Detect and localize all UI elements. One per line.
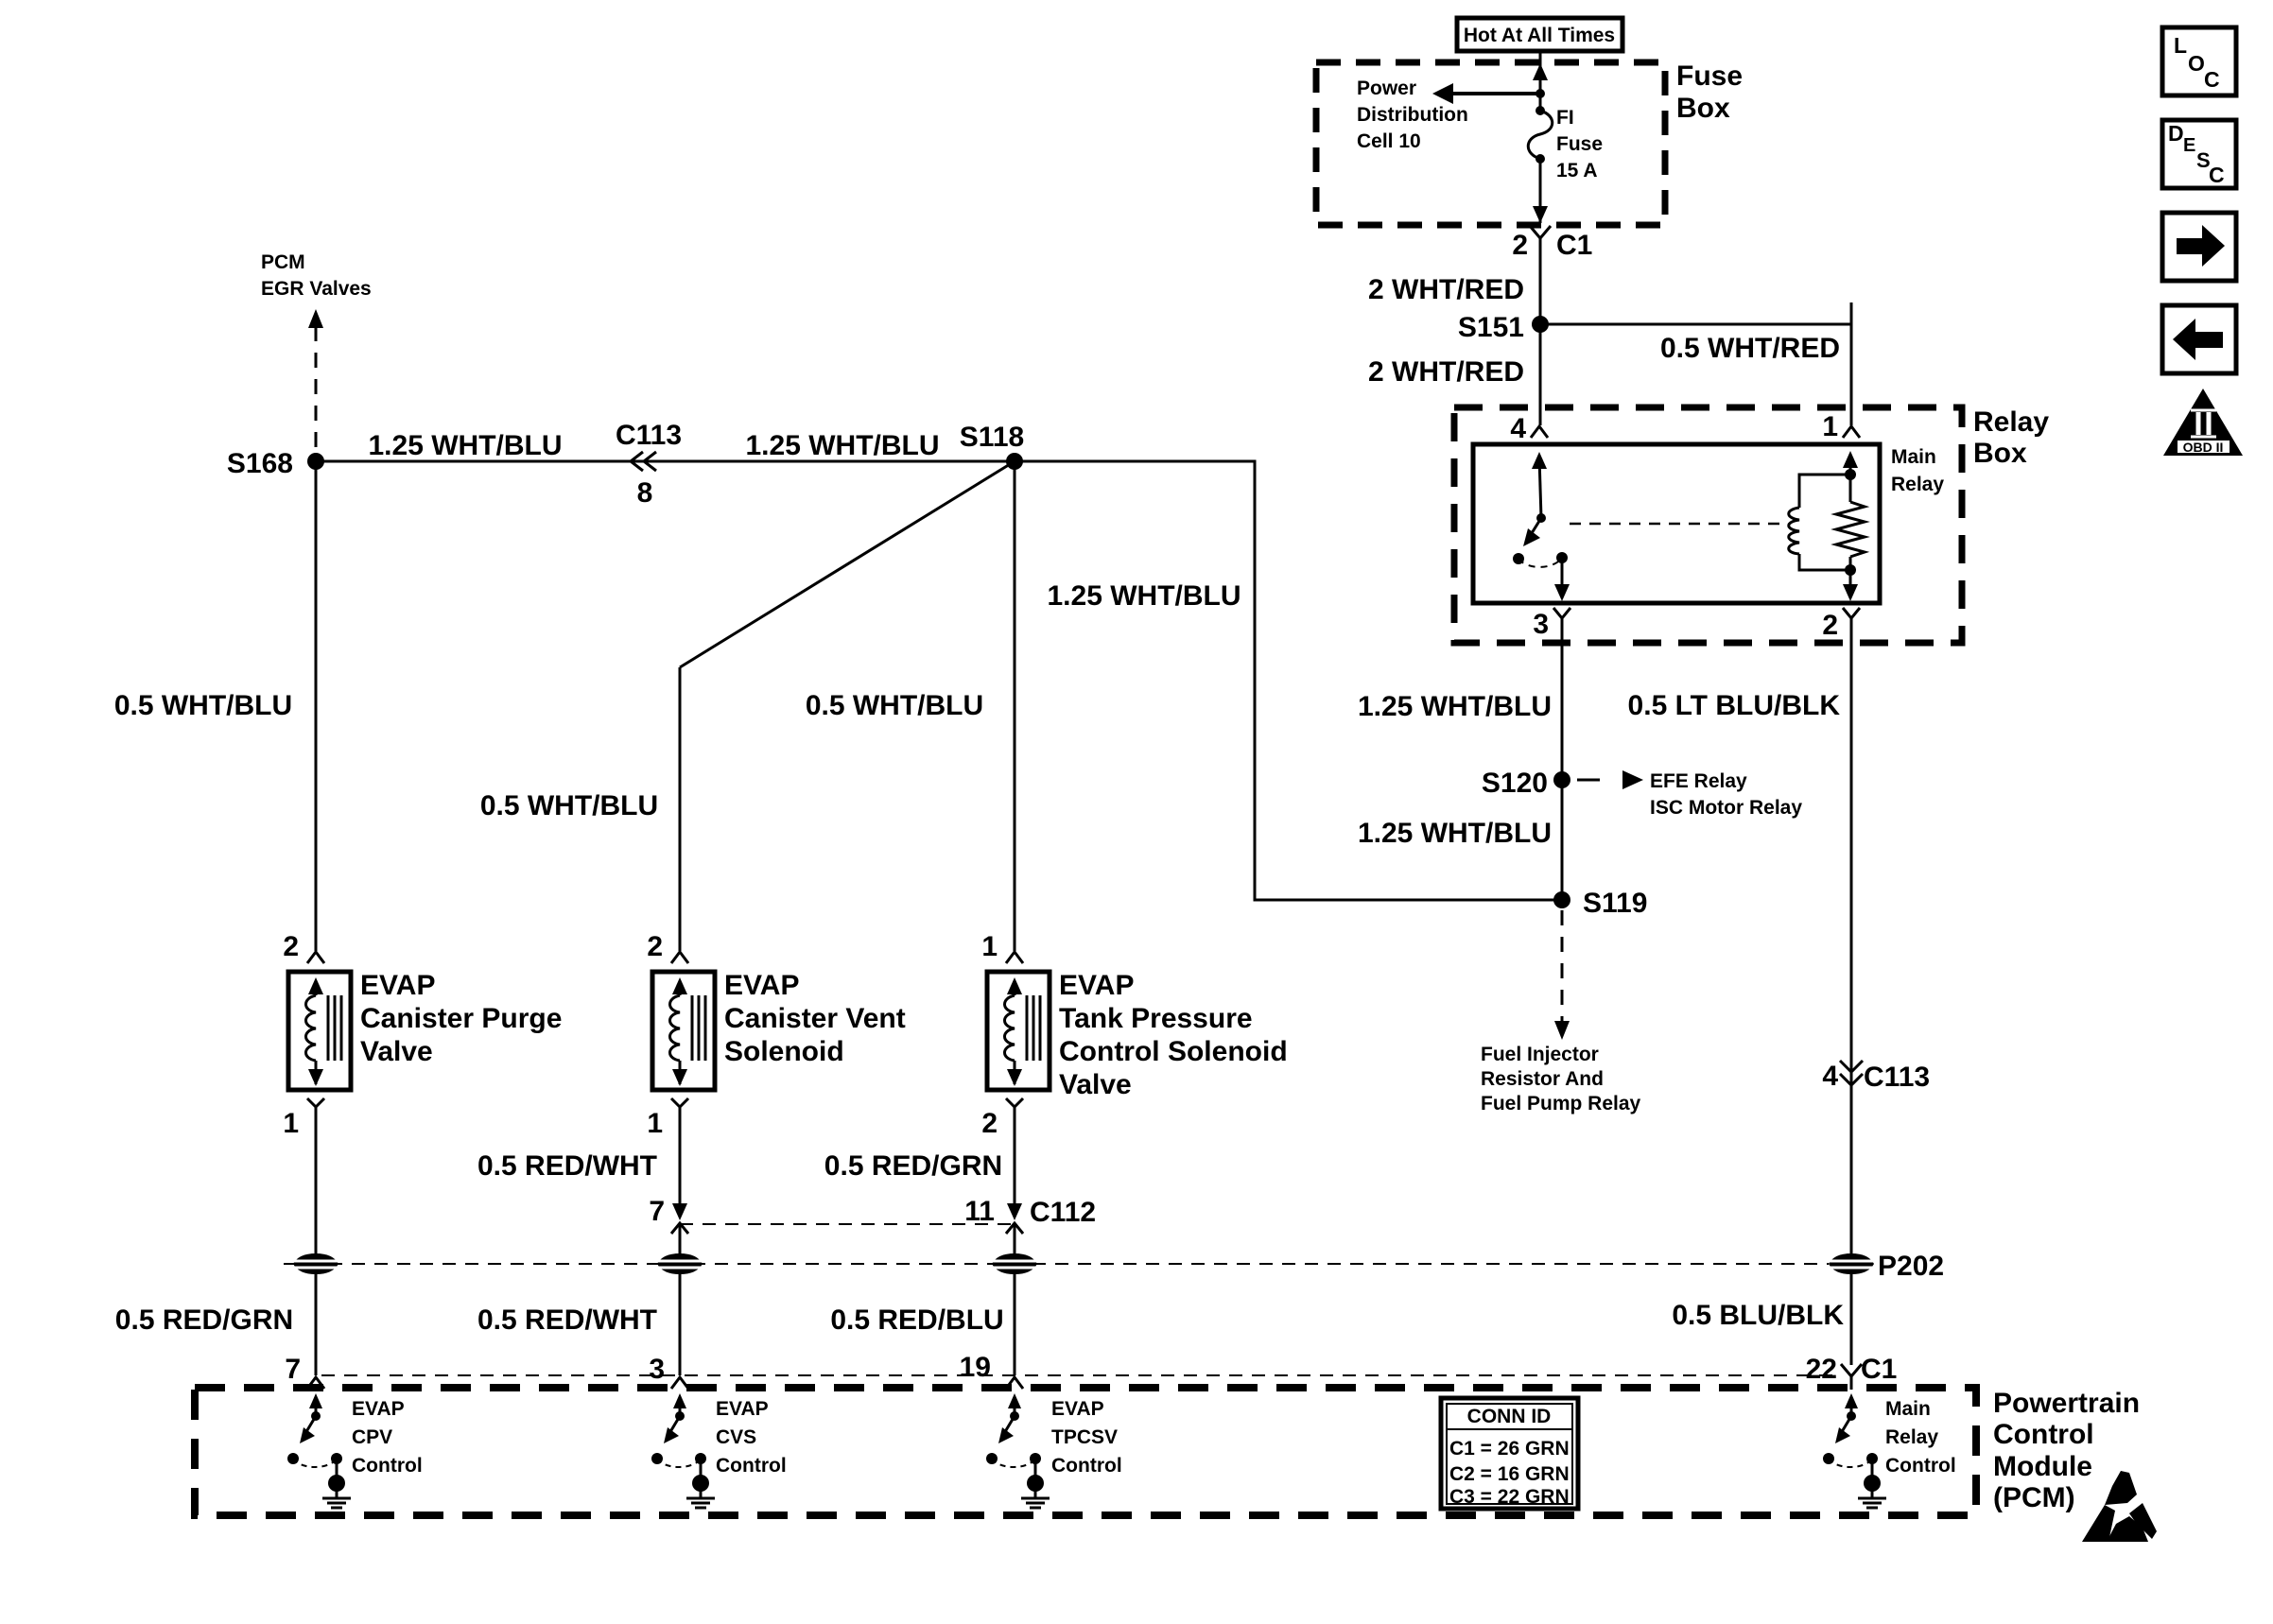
svg-text:1.25 WHT/BLU: 1.25 WHT/BLU: [368, 430, 562, 461]
svg-text:1: 1: [647, 1108, 663, 1139]
svg-text:19: 19: [960, 1352, 991, 1383]
connector pin 19 PCM colC: [960, 1352, 1023, 1389]
wire relay pin3 to S120 to S119: [1561, 635, 1564, 900]
svg-text:PCM: PCM: [261, 251, 305, 273]
svg-text:1: 1: [283, 1108, 299, 1139]
label EFE Relay ISC Motor Relay: [1650, 770, 1802, 819]
fuse FI 15A symbol: [1528, 106, 1553, 164]
svg-text:Canister Vent: Canister Vent: [724, 1003, 906, 1034]
dash arrow to EFE relay: [1577, 770, 1643, 789]
svg-text:Power: Power: [1357, 78, 1416, 99]
svg-text:FI: FI: [1556, 107, 1574, 129]
icon arrow left: [2162, 305, 2236, 373]
svg-text:7: 7: [285, 1354, 301, 1385]
icon arrow right: [2162, 213, 2236, 281]
svg-text:Fuse: Fuse: [1676, 60, 1743, 92]
svg-text:Box: Box: [1973, 438, 2027, 469]
thin dashed C112 line: [680, 1223, 1015, 1225]
svg-text:EVAP: EVAP: [1051, 1398, 1104, 1420]
svg-text:S168: S168: [227, 448, 293, 479]
svg-text:Resistor And: Resistor And: [1481, 1068, 1604, 1090]
label Main Relay: [1891, 446, 1944, 495]
thin dashed line above PCM: [321, 1374, 1841, 1376]
svg-text:2 WHT/RED: 2 WHT/RED: [1368, 274, 1524, 305]
grommet P202 colC: [992, 1253, 1037, 1274]
svg-text:D: D: [2168, 121, 2184, 146]
connector pin 1 colA: [283, 1098, 324, 1139]
svg-text:0.5 WHT/RED: 0.5 WHT/RED: [1660, 333, 1840, 364]
svg-text:C1: C1: [1861, 1354, 1897, 1385]
dashed arrow below S119 to fuel injector resistor: [1554, 910, 1570, 1040]
svg-text:2: 2: [1512, 230, 1528, 261]
PCM switch colA (EVAP CPV Control driver): [287, 1393, 342, 1477]
connector pin 3 PCM colB: [649, 1354, 688, 1389]
svg-text:Fuse: Fuse: [1556, 133, 1603, 155]
svg-text:S119: S119: [1583, 888, 1647, 919]
svg-text:0.5 RED/GRN: 0.5 RED/GRN: [115, 1304, 293, 1336]
svg-text:3: 3: [1533, 609, 1549, 640]
connector C112 pin 11: [964, 1196, 1096, 1234]
label Fuse Box: [1676, 60, 1743, 124]
ground colB: [686, 1475, 715, 1508]
svg-text:0.5 RED/WHT: 0.5 RED/WHT: [477, 1304, 657, 1336]
svg-text:C1: C1: [1556, 230, 1592, 261]
label EVAP CVS Control: [716, 1398, 787, 1477]
svg-text:Solenoid: Solenoid: [724, 1036, 844, 1067]
label Powertrain Control Module (PCM): [1993, 1388, 2140, 1513]
connector pin 2 below relay: [1822, 608, 1860, 641]
grommet P202 right: [1829, 1251, 1944, 1282]
wire S168 to S118: [316, 460, 1015, 463]
svg-text:1.25 WHT/BLU: 1.25 WHT/BLU: [745, 430, 939, 461]
PCM switch colC (EVAP TPCSV Control driver): [986, 1393, 1041, 1477]
wire colC C112 to PCM: [1014, 1223, 1016, 1375]
svg-text:3: 3: [649, 1354, 665, 1385]
node S120: [1482, 768, 1570, 799]
relay box dashed border: [1454, 407, 1962, 643]
connector pin 2 colC: [981, 1098, 1023, 1139]
svg-text:EVAP: EVAP: [360, 970, 435, 1001]
label EVAP CPV Control: [352, 1398, 423, 1477]
svg-text:0.5 WHT/BLU: 0.5 WHT/BLU: [114, 690, 292, 721]
svg-text:Distribution: Distribution: [1357, 104, 1468, 126]
svg-text:C2 = 16 GRN: C2 = 16 GRN: [1449, 1463, 1570, 1485]
connector C1 pin 22: [1806, 1354, 1898, 1390]
svg-text:4: 4: [1822, 1061, 1838, 1092]
svg-text:Control Solenoid: Control Solenoid: [1059, 1036, 1288, 1067]
CONN ID table: [1441, 1398, 1578, 1509]
svg-text:1.25 WHT/BLU: 1.25 WHT/BLU: [1358, 818, 1552, 849]
main relay rectangle: [1473, 444, 1880, 603]
svg-text:L: L: [2174, 33, 2187, 58]
connector C112 pin 7: [649, 1196, 688, 1234]
PCM switch colB (EVAP CVS Control driver): [651, 1393, 706, 1477]
svg-text:C112: C112: [1030, 1197, 1096, 1228]
svg-text:2: 2: [981, 1108, 998, 1139]
svg-text:11: 11: [964, 1196, 995, 1227]
svg-text:Powertrain: Powertrain: [1993, 1388, 2140, 1419]
grommet P202 colA: [293, 1253, 338, 1274]
PCM dashed border: [195, 1388, 1976, 1515]
label Fuel Injector Resistor And Fuel Pump Relay: [1481, 1044, 1641, 1114]
svg-text:S151: S151: [1458, 312, 1524, 343]
svg-text:Relay: Relay: [1973, 406, 2049, 438]
connector pin 3 below relay: [1533, 608, 1570, 640]
junction node in fuse box: [1536, 89, 1545, 98]
connector C113 pin 8 on wire: [616, 420, 682, 509]
svg-text:P202: P202: [1878, 1251, 1944, 1282]
svg-text:TPCSV: TPCSV: [1051, 1426, 1118, 1448]
connector pin 7 PCM colA: [285, 1354, 324, 1389]
label EVAP Tank Pressure Control Solenoid Valve: [1059, 970, 1288, 1100]
Hot At All Times box: [1457, 18, 1622, 51]
label Relay Box: [1973, 406, 2049, 469]
svg-text:0.5 RED/BLU: 0.5 RED/BLU: [830, 1304, 1003, 1336]
ESD warning symbol: [2082, 1471, 2157, 1542]
svg-text:Control: Control: [352, 1455, 423, 1477]
svg-text:22: 22: [1806, 1354, 1837, 1385]
relay switch: [1513, 452, 1570, 601]
wire S118 down: [1014, 461, 1016, 951]
label Power Distribution Cell 10: [1357, 78, 1468, 152]
node S168: [227, 448, 324, 479]
wire from Hot At All Times into fuse box: [1539, 51, 1542, 111]
svg-text:Main: Main: [1891, 446, 1936, 468]
wire P202 to PCM: [1850, 1274, 1853, 1365]
svg-text:Hot At All Times: Hot At All Times: [1464, 25, 1615, 46]
svg-text:Valve: Valve: [1059, 1069, 1132, 1100]
diagonal wire from S118: [680, 461, 1015, 667]
svg-text:8: 8: [637, 477, 653, 509]
wire C1 to S151: [1539, 253, 1542, 425]
PCM switch main relay control x=1958: [1823, 1393, 1878, 1477]
connector pin 4 at relay: [1510, 413, 1548, 444]
svg-text:Control: Control: [1885, 1455, 1956, 1477]
svg-text:CVS: CVS: [716, 1426, 756, 1448]
label FI Fuse 15 A: [1556, 107, 1603, 181]
svg-text:1: 1: [981, 931, 998, 962]
wire colB down to C112: [679, 1119, 682, 1215]
svg-text:Relay: Relay: [1891, 474, 1944, 495]
svg-text:EFE Relay: EFE Relay: [1650, 770, 1747, 792]
svg-text:15 A: 15 A: [1556, 160, 1598, 181]
svg-text:CONN ID: CONN ID: [1467, 1406, 1552, 1427]
svg-text:OBD II: OBD II: [2183, 440, 2224, 455]
ground colC: [1021, 1475, 1050, 1508]
label PCM EGR Valves: [261, 251, 372, 300]
svg-text:CPV: CPV: [352, 1426, 392, 1448]
connector C113 pin 4: [1822, 1061, 1930, 1093]
svg-text:Control: Control: [1051, 1455, 1122, 1477]
wire colC down to C112: [1014, 1119, 1016, 1215]
svg-text:Main: Main: [1885, 1398, 1931, 1420]
svg-text:Control: Control: [1993, 1419, 2094, 1450]
wire S168 down to valve: [315, 461, 318, 951]
svg-text:C113: C113: [616, 420, 682, 451]
svg-text:S120: S120: [1482, 768, 1548, 799]
connector pin 2 colA: [283, 931, 324, 963]
svg-text:Control: Control: [716, 1455, 787, 1477]
svg-text:0.5 LT BLU/BLK: 0.5 LT BLU/BLK: [1628, 690, 1841, 721]
dashed wire up from S168 with arrow: [308, 309, 323, 461]
node S151: [1458, 312, 1549, 343]
svg-text:0.5 RED/WHT: 0.5 RED/WHT: [477, 1150, 657, 1182]
svg-text:2: 2: [1822, 610, 1838, 641]
fuse box dashed border: [1316, 62, 1665, 225]
wire colA down to PCM: [315, 1119, 318, 1375]
svg-text:C: C: [2209, 163, 2225, 187]
connector C1 pin 2 below fuse box: [1512, 226, 1592, 261]
svg-text:(PCM): (PCM): [1993, 1482, 2075, 1513]
node S119: [1553, 888, 1647, 919]
svg-text:0.5 RED/GRN: 0.5 RED/GRN: [824, 1150, 1002, 1182]
svg-text:EVAP: EVAP: [352, 1398, 405, 1420]
svg-text:Valve: Valve: [360, 1036, 433, 1067]
label Main Relay Control: [1885, 1398, 1956, 1477]
svg-text:0.5 BLU/BLK: 0.5 BLU/BLK: [1672, 1300, 1844, 1331]
arrow down at fuse box bottom: [1533, 206, 1548, 223]
node S118: [960, 422, 1024, 470]
relay coil: [1789, 469, 1856, 576]
connector pin 1 colC: [981, 931, 1023, 963]
label EVAP Canister Purge Valve: [360, 970, 562, 1067]
svg-text:ISC Motor Relay: ISC Motor Relay: [1650, 797, 1802, 819]
svg-text:Box: Box: [1676, 93, 1730, 124]
wire relay pin2 down: [1850, 635, 1853, 1253]
svg-text:C3 = 22 GRN: C3 = 22 GRN: [1449, 1486, 1570, 1508]
EVAP canister purge valve component: [288, 972, 351, 1090]
wire S118 right and down to S119: [1015, 461, 1562, 900]
svg-text:7: 7: [649, 1196, 665, 1227]
grommet P202 colB: [657, 1253, 703, 1274]
wire arrow to Power Distribution Cell 10: [1432, 83, 1540, 104]
svg-text:4: 4: [1510, 413, 1526, 444]
svg-text:EVAP: EVAP: [1059, 970, 1134, 1001]
wire colB down: [679, 667, 682, 951]
EVAP tank pressure control solenoid valve component: [987, 972, 1050, 1090]
svg-text:Module: Module: [1993, 1451, 2092, 1482]
svg-text:0.5 WHT/BLU: 0.5 WHT/BLU: [480, 790, 658, 821]
wire colB C112 to PCM: [679, 1223, 682, 1375]
connector pin 1 at relay: [1822, 411, 1860, 442]
svg-text:1: 1: [1822, 411, 1838, 442]
svg-text:E: E: [2183, 135, 2195, 156]
svg-text:C113: C113: [1864, 1062, 1930, 1093]
wire S151 to relay pin 1: [1540, 302, 1851, 425]
svg-text:C1 = 26 GRN: C1 = 26 GRN: [1449, 1438, 1570, 1460]
svg-text:Relay: Relay: [1885, 1426, 1938, 1448]
svg-text:0.5 WHT/BLU: 0.5 WHT/BLU: [806, 690, 983, 721]
icon DESC: [2162, 120, 2236, 188]
label EVAP TPCSV Control: [1051, 1398, 1122, 1477]
svg-text:EVAP: EVAP: [724, 970, 799, 1001]
svg-text:2: 2: [647, 931, 663, 962]
relay internal dashed link: [1570, 523, 1785, 526]
svg-text:O: O: [2188, 51, 2205, 76]
svg-text:1.25 WHT/BLU: 1.25 WHT/BLU: [1047, 580, 1241, 612]
connector pin 2 colB: [647, 931, 688, 963]
svg-text:Cell 10: Cell 10: [1357, 130, 1421, 152]
connector pin 1 colB: [647, 1098, 688, 1139]
ground colA: [322, 1475, 351, 1508]
icon LOC: [2162, 27, 2236, 95]
svg-text:Fuel Injector: Fuel Injector: [1481, 1044, 1599, 1065]
svg-text:Fuel Pump Relay: Fuel Pump Relay: [1481, 1093, 1641, 1114]
svg-text:2: 2: [283, 931, 299, 962]
svg-text:EVAP: EVAP: [716, 1398, 769, 1420]
svg-text:C: C: [2204, 67, 2220, 92]
ground main relay control: [1858, 1475, 1886, 1508]
EVAP canister vent solenoid component: [652, 972, 715, 1090]
arrow up at fuse box top: [1533, 63, 1548, 80]
svg-text:EGR Valves: EGR Valves: [261, 278, 372, 300]
svg-text:Tank Pressure: Tank Pressure: [1059, 1003, 1253, 1034]
svg-text:1.25 WHT/BLU: 1.25 WHT/BLU: [1358, 691, 1552, 722]
svg-text:Canister Purge: Canister Purge: [360, 1003, 562, 1034]
label EVAP Canister Vent Solenoid: [724, 970, 906, 1067]
svg-text:S118: S118: [960, 422, 1024, 453]
icon OBD II triangle: [2163, 389, 2243, 456]
thin dashed P202 line: [284, 1263, 1829, 1265]
svg-text:2 WHT/RED: 2 WHT/RED: [1368, 356, 1524, 388]
relay resistor: [1836, 451, 1865, 601]
